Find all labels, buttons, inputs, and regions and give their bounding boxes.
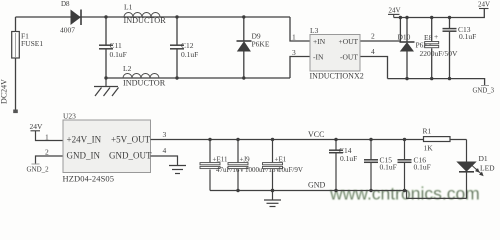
svg-text:10uF/9V: 10uF/9V xyxy=(278,166,303,174)
svg-text:0.1uF: 0.1uF xyxy=(414,163,431,172)
svg-text:INDUCTIONX2: INDUCTIONX2 xyxy=(310,72,364,81)
wire C12 branch xyxy=(176,17,178,78)
capacitor C15 xyxy=(364,140,397,191)
diode D8 4007 xyxy=(60,0,81,35)
capacitor E11 electrolytic xyxy=(200,140,244,191)
svg-text:C12: C12 xyxy=(181,41,194,50)
power port GND_3 xyxy=(473,86,495,95)
wire GND rail xyxy=(210,191,467,199)
wire GND_OUT to ground xyxy=(151,156,178,166)
diode D1 LED xyxy=(458,154,496,198)
svg-text:3: 3 xyxy=(292,48,296,57)
capacitor J9 electrolytic xyxy=(228,140,280,191)
svg-text:GND: GND xyxy=(308,181,326,190)
wire bottom rail right section xyxy=(388,79,485,86)
wire C13 branch xyxy=(449,18,451,79)
node dots bottom right rail xyxy=(405,77,408,80)
capacitor C13 xyxy=(443,29,457,32)
svg-text:4: 4 xyxy=(163,146,167,155)
capacitor C14 xyxy=(329,140,357,191)
svg-text:0.1uF: 0.1uF xyxy=(181,50,198,59)
svg-text:+IN: +IN xyxy=(313,37,326,46)
svg-text:0.1uF: 0.1uF xyxy=(380,163,397,172)
svg-text:D10: D10 xyxy=(398,33,411,42)
power port GND_2 xyxy=(27,164,50,174)
svg-text:1: 1 xyxy=(292,33,296,42)
wire top rail xyxy=(16,16,291,18)
module U23 HZD04-24S05 xyxy=(63,112,152,184)
svg-text:2: 2 xyxy=(371,32,375,41)
svg-text:2200uF/50V: 2200uF/50V xyxy=(420,49,459,58)
svg-text:3: 3 xyxy=(163,130,167,139)
capacitor E8 electrolytic xyxy=(420,32,459,58)
svg-text:24V: 24V xyxy=(389,6,401,14)
capacitor C12 xyxy=(170,45,184,49)
capacitor C11 xyxy=(99,45,113,49)
wire bottom rail top section xyxy=(106,77,290,79)
svg-text:+: + xyxy=(434,32,438,41)
node dots GND rail xyxy=(236,189,239,192)
wire L3 pin2 to 24V riser xyxy=(360,18,400,42)
fuse F1 xyxy=(12,32,20,59)
svg-text:1: 1 xyxy=(45,133,49,142)
svg-text:0.1uF: 0.1uF xyxy=(110,50,127,59)
svg-text:24V: 24V xyxy=(30,122,44,131)
wire left input drop xyxy=(15,17,17,110)
svg-text:+24V_IN: +24V_IN xyxy=(67,135,102,145)
svg-text:DC24V: DC24V xyxy=(0,79,9,104)
diode D10 P6KE (TVS) xyxy=(398,33,434,52)
svg-text:+5V_OUT: +5V_OUT xyxy=(111,135,151,145)
svg-text:+J9: +J9 xyxy=(240,156,251,164)
svg-text:2: 2 xyxy=(45,148,49,157)
svg-text:FUSE1: FUSE1 xyxy=(21,39,43,48)
wire 24V to pin1 xyxy=(36,131,64,141)
module L3 INDUCTIONX2 xyxy=(310,26,364,81)
svg-text:P6KE: P6KE xyxy=(252,40,270,49)
node dots bottom rail xyxy=(104,76,107,79)
svg-text:-IN: -IN xyxy=(313,53,324,62)
svg-text:L2: L2 xyxy=(123,64,132,73)
svg-text:+E11: +E11 xyxy=(213,156,228,164)
svg-text:VCC: VCC xyxy=(308,130,324,139)
wire 24V rail right xyxy=(394,9,485,18)
node dots top rail xyxy=(175,15,178,18)
capacitor C16 xyxy=(398,140,431,191)
svg-text:GND_2: GND_2 xyxy=(27,166,50,174)
svg-text:+E1: +E1 xyxy=(275,156,287,164)
svg-text:E8: E8 xyxy=(424,33,433,42)
svg-text:R1: R1 xyxy=(423,127,432,136)
wire VCC rail xyxy=(151,139,467,141)
wire to L3 pin1 xyxy=(290,17,310,41)
wire E8 branch xyxy=(431,18,433,79)
svg-text:-OUT: -OUT xyxy=(340,53,358,62)
capacitor E1 electrolytic xyxy=(263,140,303,191)
node dots VCC rail xyxy=(208,138,211,141)
wire R1 to LED xyxy=(466,140,468,162)
svg-text:D1: D1 xyxy=(479,154,488,163)
svg-text:GND_IN: GND_IN xyxy=(67,151,101,161)
wire C11 branch xyxy=(105,17,107,78)
svg-text:D8: D8 xyxy=(61,0,70,8)
wire GND_2 to pin2 xyxy=(36,156,64,164)
watermark www.cntronics.com xyxy=(329,184,480,204)
svg-text:L3: L3 xyxy=(310,26,319,35)
wire L3 pin4 drop xyxy=(360,57,388,79)
resistor R1 1K xyxy=(423,127,451,153)
LED arrows xyxy=(472,165,483,176)
ground (below GND rail) xyxy=(264,191,281,207)
ground (U23 pin4) xyxy=(169,166,186,174)
svg-text:0.1uF: 0.1uF xyxy=(459,32,476,41)
inductor L2 xyxy=(123,74,159,79)
svg-text:HZD04-24S05: HZD04-24S05 xyxy=(63,174,115,184)
node dots 24V rail xyxy=(399,16,402,19)
svg-text:0.1uF: 0.1uF xyxy=(340,154,357,163)
wire D9 branch xyxy=(243,17,245,78)
svg-text:C11: C11 xyxy=(110,41,122,50)
wire to L3 pin3 xyxy=(290,57,310,79)
wire D10 branch xyxy=(406,18,408,79)
svg-text:LED: LED xyxy=(480,164,495,173)
diode D9 P6KE (TVS) xyxy=(237,32,270,52)
svg-text:4: 4 xyxy=(371,47,375,56)
svg-text:GND_OUT: GND_OUT xyxy=(109,151,152,161)
svg-text:1K: 1K xyxy=(424,144,434,153)
svg-text:GND_3: GND_3 xyxy=(473,88,495,95)
inductor L1 xyxy=(124,13,160,17)
svg-text:INDUCTOR: INDUCTOR xyxy=(123,79,166,88)
node A (after D8) xyxy=(104,15,107,18)
svg-text:L1: L1 xyxy=(124,3,133,12)
svg-text:4007: 4007 xyxy=(60,26,75,35)
svg-text:U23: U23 xyxy=(63,112,76,121)
svg-text:INDUCTOR: INDUCTOR xyxy=(124,16,167,25)
connector terminal DC24V xyxy=(13,110,18,114)
svg-text:+OUT: +OUT xyxy=(339,37,359,46)
ground (earth) below C11 xyxy=(94,78,119,96)
svg-text:24V: 24V xyxy=(478,0,490,8)
